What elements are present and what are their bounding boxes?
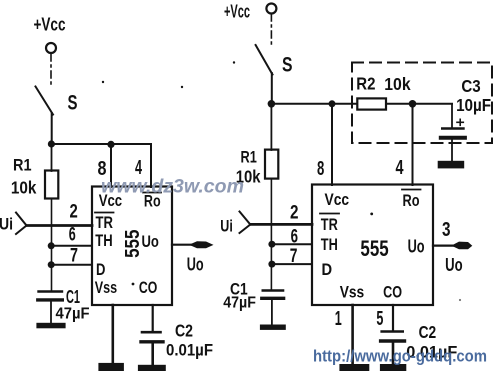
svg-text:R2: R2 bbox=[356, 74, 375, 94]
svg-text:C2: C2 bbox=[175, 321, 193, 341]
svg-text:+Vcc: +Vcc bbox=[34, 14, 66, 35]
svg-text:+Vcc: +Vcc bbox=[224, 2, 250, 22]
svg-text:1: 1 bbox=[335, 308, 342, 330]
svg-text:TR: TR bbox=[321, 216, 338, 234]
svg-text:Uo: Uo bbox=[445, 255, 463, 275]
svg-text:0.01µF: 0.01µF bbox=[166, 341, 213, 360]
svg-text:Ro: Ro bbox=[403, 192, 420, 210]
svg-text:CO: CO bbox=[139, 279, 158, 297]
svg-text:Ui: Ui bbox=[220, 217, 233, 236]
svg-text:2: 2 bbox=[70, 201, 78, 223]
svg-text:S: S bbox=[282, 54, 293, 77]
svg-text:2: 2 bbox=[290, 202, 299, 224]
svg-text:10µF: 10µF bbox=[456, 95, 491, 115]
svg-text:Uo: Uo bbox=[408, 236, 425, 256]
svg-text:7: 7 bbox=[290, 245, 298, 267]
svg-text:555: 555 bbox=[122, 230, 144, 258]
svg-text:Ui: Ui bbox=[0, 215, 13, 234]
svg-text:http://www.go-gddq.com: http://www.go-gddq.com bbox=[313, 347, 487, 366]
svg-text:10k: 10k bbox=[11, 178, 37, 198]
svg-text:8: 8 bbox=[317, 158, 324, 180]
svg-text:D: D bbox=[96, 261, 105, 279]
svg-text:Vss: Vss bbox=[340, 283, 365, 301]
svg-text:3: 3 bbox=[442, 219, 451, 241]
svg-text:R1: R1 bbox=[13, 156, 32, 175]
svg-text:6: 6 bbox=[69, 223, 76, 245]
svg-text:C2: C2 bbox=[419, 322, 437, 342]
svg-text:Vss: Vss bbox=[95, 279, 117, 297]
svg-text:47µF: 47µF bbox=[223, 295, 256, 312]
svg-text:www.dz3w.com: www.dz3w.com bbox=[101, 176, 244, 198]
svg-text:47µF: 47µF bbox=[56, 306, 90, 323]
svg-text:TH: TH bbox=[321, 236, 338, 254]
svg-text:C3: C3 bbox=[461, 76, 481, 96]
svg-text:S: S bbox=[68, 92, 78, 115]
svg-text:Uo: Uo bbox=[187, 255, 204, 275]
svg-text:R1: R1 bbox=[241, 147, 257, 166]
svg-text:7: 7 bbox=[70, 245, 78, 267]
svg-text:5: 5 bbox=[376, 308, 383, 330]
svg-text:10k: 10k bbox=[384, 74, 411, 94]
svg-text:TR: TR bbox=[96, 214, 114, 232]
svg-text:CO: CO bbox=[383, 283, 402, 301]
svg-text:TH: TH bbox=[95, 232, 112, 250]
svg-text:C1: C1 bbox=[66, 287, 80, 307]
svg-text:Uo: Uo bbox=[142, 233, 159, 251]
svg-text:D: D bbox=[322, 261, 333, 279]
svg-text:Vcc: Vcc bbox=[325, 191, 350, 209]
svg-text:4: 4 bbox=[396, 157, 405, 179]
svg-text:555: 555 bbox=[360, 236, 388, 261]
